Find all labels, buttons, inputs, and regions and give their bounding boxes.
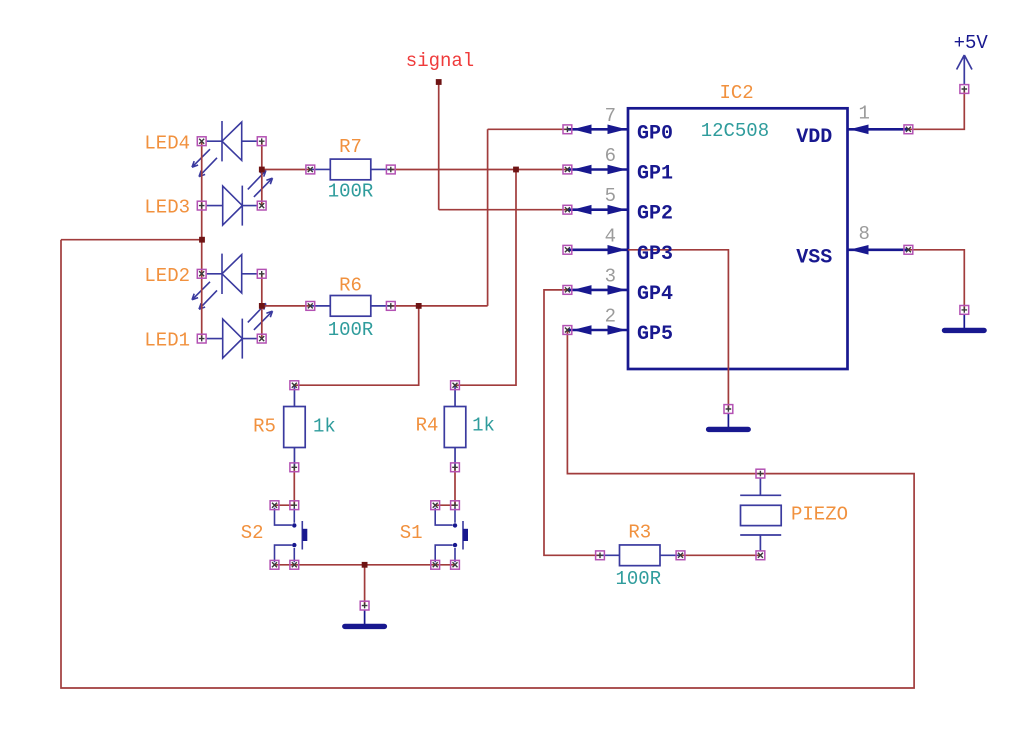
svg-text:R5: R5 <box>253 416 276 438</box>
svg-text:1k: 1k <box>472 415 495 437</box>
svg-text:GP5: GP5 <box>637 323 673 346</box>
pin marker R5 top <box>290 381 299 390</box>
pin marker R4 bottom <box>451 463 460 472</box>
pin marker GP2 <box>563 205 572 214</box>
wire GP0 horizontal <box>488 128 568 130</box>
pin marker R4 top <box>451 381 460 390</box>
pin marker R6 left <box>306 302 315 311</box>
resistor R5 symbol <box>284 385 306 467</box>
junction GP0 R6 R5 <box>416 303 422 309</box>
pin marker +5V <box>960 85 969 94</box>
pin marker LED3 anode <box>197 201 206 210</box>
pin marker LED1 cathode <box>257 334 266 343</box>
svg-text:100R: 100R <box>328 180 374 202</box>
wire GP4 to R3 <box>544 290 600 555</box>
wire GP1 junction to R4 top <box>455 170 516 386</box>
pin marker R7 left <box>306 165 315 174</box>
wire LED right column lower <box>261 274 263 339</box>
pin marker LED4 cathode <box>257 137 266 146</box>
wire LED lower junction to R6 <box>262 305 311 307</box>
svg-text:1: 1 <box>859 102 870 124</box>
resistor R7 symbol <box>310 159 391 180</box>
pin VSS line and arrow <box>848 245 909 255</box>
svg-text:LED1: LED1 <box>144 330 190 352</box>
pin marker S1 top right <box>451 501 460 510</box>
svg-text:LED4: LED4 <box>144 132 190 154</box>
resistor R6 symbol <box>310 296 391 317</box>
pin GP3 line and arrow <box>567 245 628 255</box>
pin marker S1 bottom right <box>451 560 460 569</box>
wire GP5 long loop <box>61 240 914 688</box>
wire switch bottom rail <box>275 564 456 566</box>
svg-text:LED2: LED2 <box>144 265 190 287</box>
wire R4 to S1 <box>435 467 455 505</box>
svg-text:R6: R6 <box>339 275 362 297</box>
wire LED right column upper <box>261 141 263 205</box>
wire net signal to GP2 <box>439 209 568 211</box>
svg-text:S1: S1 <box>400 522 423 544</box>
junction LED R7 <box>259 167 265 173</box>
pin marker R7 right <box>386 165 395 174</box>
switch S1 symbol <box>435 508 468 563</box>
wire GP1 to R7 <box>391 169 568 171</box>
pin marker GP4 <box>563 286 572 295</box>
ground symbol below switches <box>342 610 387 630</box>
wire R3 to piezo <box>681 554 761 556</box>
svg-text:+5V: +5V <box>954 32 989 54</box>
pin marker LED3 cathode <box>257 201 266 210</box>
pin marker S2 bottom right <box>290 560 299 569</box>
junction signal stub <box>436 79 442 85</box>
pin marker R3 left <box>596 551 605 560</box>
svg-text:IC2: IC2 <box>720 82 754 104</box>
wire LED mid to left rail <box>61 239 202 241</box>
pin marker R5 bottom <box>290 463 299 472</box>
svg-text:7: 7 <box>605 105 616 127</box>
wire net signal vertical <box>438 82 440 210</box>
pin marker GP1 <box>563 165 572 174</box>
supply symbol +5V arrow <box>957 55 972 84</box>
svg-text:R3: R3 <box>628 522 651 544</box>
svg-text:VDD: VDD <box>796 126 832 149</box>
pin marker ground below switches <box>360 601 369 610</box>
wire VSS to ground <box>908 250 964 310</box>
pin marker R3 right <box>676 551 685 560</box>
pin VDD line and arrow <box>848 125 909 135</box>
pin marker ground below VSS <box>960 306 969 315</box>
LED1 symbol <box>207 304 273 359</box>
pin marker LED2 cathode <box>257 269 266 278</box>
svg-text:GP3: GP3 <box>637 243 673 266</box>
pin GP2 line and arrows <box>567 205 628 215</box>
junction LED mid rail <box>199 237 205 243</box>
ground symbol below IC2 <box>706 413 751 433</box>
junction switch ground <box>362 562 368 568</box>
pin GP0 line and arrows <box>567 125 628 135</box>
svg-text:GP1: GP1 <box>637 163 673 186</box>
ground symbol below VSS <box>942 314 987 334</box>
svg-text:100R: 100R <box>616 568 662 590</box>
switch S2 symbol <box>275 508 308 563</box>
wire VDD to +5V <box>908 89 964 129</box>
LED4 symbol <box>192 121 257 177</box>
svg-text:1k: 1k <box>313 416 336 438</box>
junction LED R6 <box>259 303 265 309</box>
resistor R4 symbol <box>444 385 466 467</box>
svg-text:S2: S2 <box>241 522 264 544</box>
svg-text:R4: R4 <box>416 415 439 437</box>
pin marker PIEZO bottom <box>756 551 765 560</box>
svg-text:PIEZO: PIEZO <box>791 504 848 526</box>
resistor R3 symbol <box>600 545 681 566</box>
svg-text:6: 6 <box>605 145 616 167</box>
wire GP3 to ground <box>567 250 728 409</box>
svg-text:signal: signal <box>406 50 474 72</box>
pin marker ground below IC2 <box>724 405 733 414</box>
pin marker GP3 <box>563 245 572 254</box>
wire LED upper junction to R7 <box>262 169 311 171</box>
pin marker S2 top left <box>270 501 279 510</box>
LED3 symbol <box>207 171 273 226</box>
pin marker VDD <box>904 125 913 134</box>
pin GP4 line and arrows <box>567 285 628 295</box>
svg-text:5: 5 <box>605 185 616 207</box>
pin marker S1 bottom left <box>431 560 440 569</box>
svg-text:VSS: VSS <box>796 247 832 270</box>
pin marker LED4 anode <box>197 137 206 146</box>
svg-text:LED3: LED3 <box>144 197 190 219</box>
wire GP0 to R6 junction <box>391 305 488 307</box>
pin marker VSS <box>904 245 913 254</box>
svg-text:R7: R7 <box>339 136 362 158</box>
svg-text:8: 8 <box>859 223 870 245</box>
wire R5 to S2 <box>275 467 295 505</box>
svg-text:GP0: GP0 <box>637 122 673 145</box>
wire bottom rail to ground <box>364 565 366 606</box>
svg-text:GP2: GP2 <box>637 203 673 226</box>
wire GP0 vertical <box>487 129 489 306</box>
pin marker S1 top left <box>431 501 440 510</box>
svg-text:3: 3 <box>605 265 616 287</box>
pin marker GP5 <box>563 326 572 335</box>
svg-text:12C508: 12C508 <box>701 120 769 142</box>
svg-text:4: 4 <box>605 225 616 247</box>
op IC2 body <box>628 108 848 369</box>
pin marker S2 bottom left <box>270 560 279 569</box>
pin GP5 line and arrows <box>567 325 628 335</box>
junction GP1 R4 <box>513 167 519 173</box>
pin GP1 line and arrows <box>567 165 628 175</box>
pin marker GP0 <box>563 125 572 134</box>
pin marker PIEZO top <box>756 469 765 478</box>
pin marker R6 right <box>386 302 395 311</box>
pin marker S2 top right <box>290 501 299 510</box>
svg-text:100R: 100R <box>328 319 374 341</box>
wire LED anode column <box>201 141 203 338</box>
svg-text:2: 2 <box>605 306 616 328</box>
pin marker LED1 anode <box>197 334 206 343</box>
LED2 symbol <box>192 254 257 310</box>
piezo PIEZO symbol <box>740 478 781 551</box>
wire junction to R5 top <box>294 306 418 385</box>
pin marker LED2 anode <box>197 269 206 278</box>
svg-text:GP4: GP4 <box>637 283 673 306</box>
